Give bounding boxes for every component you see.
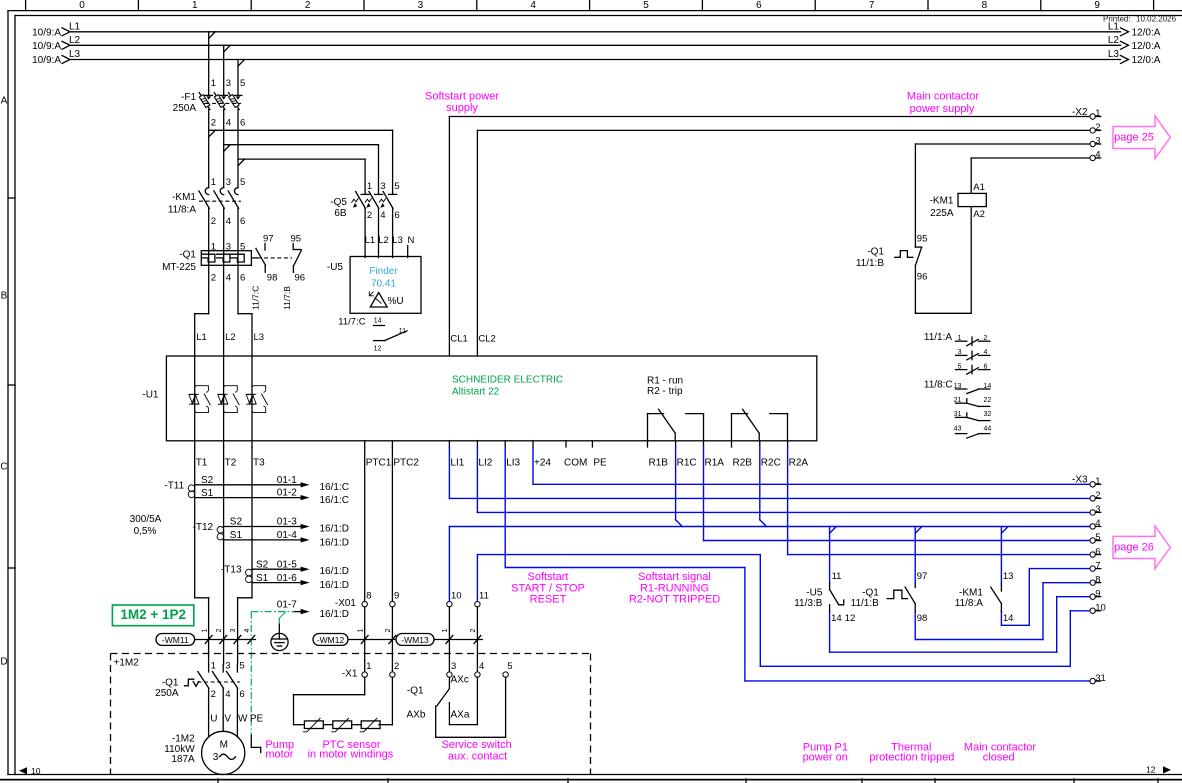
svg-text:8: 8 bbox=[366, 591, 371, 602]
svg-text:PTC2: PTC2 bbox=[393, 457, 419, 468]
relay contact R1 (changeover) inside -U1 bbox=[648, 409, 704, 441]
wire -X2:3 to -Q1 aux 95 bbox=[915, 143, 1090, 145]
svg-text:3: 3 bbox=[1095, 136, 1100, 147]
svg-text:power supply: power supply bbox=[910, 103, 975, 115]
svg-text:2: 2 bbox=[470, 629, 477, 633]
footer title-block top edge bbox=[0, 779, 1182, 783]
wire PTC1 to -X01:8 bbox=[364, 447, 366, 602]
wire LI3 to -X3:31 bbox=[505, 447, 1090, 681]
svg-text:8: 8 bbox=[982, 0, 988, 11]
svg-text:R2-NOT TRIPPED: R2-NOT TRIPPED bbox=[629, 594, 720, 606]
svg-text:Softstart: Softstart bbox=[528, 571, 569, 583]
svg-text:16/1:D: 16/1:D bbox=[320, 524, 349, 535]
miniature breaker -Q5 6B bbox=[330, 181, 399, 258]
svg-text:12/0:A: 12/0:A bbox=[1132, 55, 1161, 66]
svg-text:Finder: Finder bbox=[369, 266, 398, 277]
svg-text:-X01: -X01 bbox=[335, 598, 357, 609]
breaker contact -Q1 97-98 (11/1:B) bbox=[851, 571, 928, 624]
svg-text:V: V bbox=[224, 714, 231, 725]
svg-text:Main contactor: Main contactor bbox=[907, 90, 979, 102]
svg-text:2: 2 bbox=[1095, 122, 1100, 133]
svg-text:Softstart signal: Softstart signal bbox=[638, 571, 711, 583]
svg-text:16/1:C: 16/1:C bbox=[320, 495, 349, 506]
svg-text:8: 8 bbox=[1095, 574, 1100, 585]
wire LI1 to -X3:2 bbox=[449, 447, 1090, 498]
svg-text:aux. contact: aux. contact bbox=[448, 751, 507, 763]
svg-text:2: 2 bbox=[367, 210, 372, 221]
svg-text:-KM1: -KM1 bbox=[959, 588, 983, 599]
svg-text:14: 14 bbox=[374, 318, 382, 325]
circuit breaker -Q1 MT-225 with thermal elements bbox=[162, 241, 251, 283]
svg-text:-KM1: -KM1 bbox=[172, 192, 196, 203]
svg-text:-X1: -X1 bbox=[342, 669, 358, 680]
svg-text:11: 11 bbox=[832, 571, 842, 582]
svg-text:95: 95 bbox=[291, 234, 302, 245]
svg-text:10/9:A: 10/9:A bbox=[32, 55, 61, 66]
svg-text:01-1: 01-1 bbox=[277, 475, 297, 486]
svg-text:1: 1 bbox=[201, 629, 208, 633]
svg-text:1: 1 bbox=[211, 177, 216, 188]
svg-text:-Q5: -Q5 bbox=[330, 197, 347, 208]
svg-text:SCHNEIDER ELECTRIC: SCHNEIDER ELECTRIC bbox=[452, 375, 563, 386]
svg-text:1: 1 bbox=[1095, 476, 1100, 487]
svg-text:3: 3 bbox=[226, 78, 231, 89]
wire 01-7 PE reference to 16/1:D bbox=[277, 598, 357, 620]
contactor -KM1 main contacts 11/8:A bbox=[168, 177, 245, 251]
svg-text:4: 4 bbox=[244, 629, 251, 633]
fuse-switch -F1 250A bbox=[173, 78, 246, 129]
svg-text:LI3: LI3 bbox=[506, 457, 520, 468]
thyristor/bypass unit pole 2 inside -U1 bbox=[218, 356, 240, 441]
svg-text:L3: L3 bbox=[392, 235, 403, 246]
wire -X01:10 to -X1:3 bbox=[448, 607, 450, 672]
svg-text:11/1:B: 11/1:B bbox=[851, 598, 879, 609]
svg-text:4: 4 bbox=[479, 661, 484, 672]
svg-text:COM: COM bbox=[564, 457, 587, 468]
svg-text:A1: A1 bbox=[973, 182, 985, 193]
svg-text:01-7: 01-7 bbox=[277, 599, 297, 610]
svg-text:9: 9 bbox=[394, 591, 399, 602]
svg-text:32: 32 bbox=[984, 411, 992, 418]
svg-text:16/1:D: 16/1:D bbox=[320, 566, 349, 577]
svg-text:1: 1 bbox=[192, 0, 198, 11]
svg-text:14: 14 bbox=[831, 613, 842, 624]
svg-text:12/0:A: 12/0:A bbox=[1132, 27, 1161, 38]
relay -U5 output contact cross-reference 11/7:C bbox=[338, 316, 407, 352]
svg-text:2: 2 bbox=[394, 661, 399, 672]
svg-text:3: 3 bbox=[230, 629, 237, 633]
terminal strip -X01 bbox=[362, 591, 489, 607]
svg-text:-T11: -T11 bbox=[164, 480, 184, 491]
wire CL1 softstart supply from -X2:1 bbox=[449, 117, 1090, 357]
svg-text:10: 10 bbox=[1095, 602, 1106, 613]
svg-text:RESET: RESET bbox=[530, 594, 567, 606]
wire tap node L3 to -F1 bbox=[238, 60, 245, 96]
svg-text:L1: L1 bbox=[196, 332, 207, 343]
wire -X01:8 to -X1:1 bbox=[364, 607, 366, 672]
svg-text:5: 5 bbox=[507, 661, 512, 672]
svg-text:4: 4 bbox=[530, 0, 536, 11]
svg-text:97: 97 bbox=[917, 571, 928, 582]
designation box 1M2 + 1P2 bbox=[112, 605, 193, 626]
svg-text:2: 2 bbox=[211, 118, 216, 129]
svg-text:-U5: -U5 bbox=[327, 262, 344, 273]
svg-text:B: B bbox=[1, 291, 8, 302]
wire -F1:4 down to -KM1 with branch to -Q5 bbox=[224, 110, 379, 195]
svg-text:3: 3 bbox=[1095, 504, 1100, 515]
svg-text:6: 6 bbox=[240, 118, 245, 129]
svg-text:C: C bbox=[0, 462, 7, 473]
svg-text:11/8:A: 11/8:A bbox=[168, 205, 196, 216]
svg-text:2: 2 bbox=[211, 689, 216, 700]
svg-text:R2 - trip: R2 - trip bbox=[647, 386, 683, 397]
thyristor/bypass unit pole 3 inside -U1 bbox=[246, 356, 268, 441]
svg-text:11/3:B: 11/3:B bbox=[794, 598, 822, 609]
svg-text:11/1:B: 11/1:B bbox=[856, 258, 884, 269]
node labels U V W PE at motor bbox=[210, 714, 263, 725]
svg-text:2: 2 bbox=[1095, 490, 1100, 501]
svg-text:250A: 250A bbox=[173, 103, 197, 114]
svg-text:5: 5 bbox=[240, 78, 245, 89]
page 25 arrow link bbox=[1113, 116, 1170, 159]
wire T1 from -U1 to motor branch bbox=[195, 447, 209, 665]
wire tap node L1 to -F1 bbox=[209, 32, 216, 96]
svg-text:3: 3 bbox=[380, 181, 385, 192]
svg-text:01-4: 01-4 bbox=[277, 530, 297, 541]
svg-text:-X2: -X2 bbox=[1072, 107, 1088, 118]
wire -X01:11 to -X1:4 bbox=[476, 607, 478, 672]
node labels L1 L2 L3 N at -U5 inputs bbox=[365, 235, 415, 258]
svg-text:01-2: 01-2 bbox=[277, 488, 297, 499]
svg-text:5: 5 bbox=[1095, 532, 1100, 543]
wire phase L1 top power line bbox=[32, 21, 1161, 38]
label service switch aux contact bbox=[441, 739, 511, 762]
svg-text:6: 6 bbox=[756, 0, 762, 11]
svg-text:7: 7 bbox=[869, 0, 875, 11]
svg-text:2: 2 bbox=[385, 629, 392, 633]
svg-text:0,5%: 0,5% bbox=[134, 526, 157, 537]
svg-text:4: 4 bbox=[226, 118, 231, 129]
svg-text:power on: power on bbox=[803, 752, 848, 764]
PTC sensor resistors in motor windings bbox=[294, 718, 393, 732]
wire +24 to -X3:1 bbox=[533, 447, 1090, 484]
svg-text:31: 31 bbox=[1095, 673, 1106, 684]
svg-text:12/0:A: 12/0:A bbox=[1132, 41, 1161, 52]
svg-text:1: 1 bbox=[211, 78, 216, 89]
svg-text:1: 1 bbox=[367, 181, 372, 192]
svg-text:motor: motor bbox=[265, 749, 293, 761]
svg-text:16/1:D: 16/1:D bbox=[320, 537, 349, 548]
terminal strip -X2 bbox=[1072, 107, 1101, 161]
svg-text:70.41: 70.41 bbox=[371, 279, 396, 290]
svg-text:supply: supply bbox=[446, 102, 478, 114]
green PE dash-dot wire bbox=[251, 612, 294, 736]
wire -F1:6 down to -KM1 with branch to -Q5 bbox=[238, 110, 365, 195]
svg-text:13: 13 bbox=[1003, 571, 1014, 582]
svg-text:1: 1 bbox=[211, 660, 216, 671]
svg-text:-KM1: -KM1 bbox=[930, 196, 954, 207]
softstarter -U1 Schneider Altistart 22 enclosure bbox=[142, 356, 816, 441]
breaker -Q1 auxiliary contact 97-98 (11/7:C) bbox=[251, 234, 293, 311]
svg-text:-Q1: -Q1 bbox=[179, 250, 196, 261]
svg-text:3: 3 bbox=[213, 752, 219, 763]
svg-text:N: N bbox=[408, 235, 415, 246]
label pump P1 power on bbox=[803, 742, 848, 764]
svg-text:4: 4 bbox=[380, 210, 385, 221]
wire status common rail to -X3:4 and -X01:10 bbox=[449, 447, 1090, 602]
voltage monitoring relay -U5 Finder 70.41 bbox=[327, 257, 421, 314]
label main contactor power supply bbox=[907, 90, 979, 114]
relay contact -U5 11-14-12 (11/3:B) bbox=[794, 571, 855, 624]
cross-reference table 11/8:C auxiliary contacts bbox=[924, 380, 991, 439]
svg-text:T1: T1 bbox=[196, 457, 208, 468]
svg-text:R1A: R1A bbox=[705, 457, 725, 468]
svg-text:page 26: page 26 bbox=[1114, 542, 1154, 554]
svg-text:Service switch: Service switch bbox=[441, 739, 511, 751]
terminal strip -X1 bbox=[342, 661, 513, 680]
svg-text:11/8:A: 11/8:A bbox=[955, 598, 983, 609]
svg-text:L3: L3 bbox=[1108, 49, 1120, 60]
svg-text:11/7:C: 11/7:C bbox=[338, 316, 365, 327]
svg-text:-T12: -T12 bbox=[193, 522, 214, 533]
svg-text:4: 4 bbox=[226, 272, 231, 283]
label softstart power supply bbox=[425, 91, 499, 114]
wire phase L3 top power line bbox=[32, 49, 1161, 66]
wire -U5 contact branch to -X3:9 bbox=[830, 527, 1090, 653]
svg-text:Altistart 22: Altistart 22 bbox=[452, 387, 500, 398]
cable marker -WM11 bbox=[156, 629, 256, 646]
bottom page navigation markers bbox=[19, 765, 1171, 777]
terminal strip -X3 bbox=[1072, 475, 1106, 684]
svg-text:AXc: AXc bbox=[451, 675, 469, 686]
svg-text:L2: L2 bbox=[1108, 35, 1120, 46]
svg-text:10: 10 bbox=[31, 766, 41, 776]
svg-text:-X3: -X3 bbox=[1072, 475, 1088, 486]
svg-text:10/9:A: 10/9:A bbox=[32, 41, 61, 52]
wire CL2 softstart supply from -X2:2 bbox=[477, 130, 1090, 356]
svg-text:in motor windings: in motor windings bbox=[308, 749, 394, 761]
svg-text:AXa: AXa bbox=[451, 710, 470, 721]
svg-text:12: 12 bbox=[845, 613, 856, 624]
label CT rating 300/5A 0,5% bbox=[130, 514, 162, 537]
motor breaker -Q1 250A bbox=[155, 660, 245, 717]
svg-text:96: 96 bbox=[295, 273, 306, 284]
svg-text:-U5: -U5 bbox=[806, 588, 823, 599]
svg-text:11: 11 bbox=[399, 328, 406, 335]
svg-text:11/1:A: 11/1:A bbox=[924, 332, 952, 343]
contactor contact -KM1 13-14 (11/8:A) bbox=[955, 571, 1014, 624]
svg-text:3: 3 bbox=[418, 0, 424, 11]
svg-text:44: 44 bbox=[984, 425, 992, 432]
wire L3 from -Q1:6 to -U1 bbox=[238, 265, 264, 356]
svg-text:7: 7 bbox=[1095, 560, 1100, 571]
current transformer -T11 bbox=[164, 475, 349, 506]
contactor coil -KM1 225A bbox=[930, 158, 987, 313]
svg-text:-WM12: -WM12 bbox=[317, 635, 345, 645]
svg-text:5: 5 bbox=[643, 0, 649, 11]
svg-text:-WM13: -WM13 bbox=[401, 635, 429, 645]
svg-text:10/9:A: 10/9:A bbox=[32, 27, 61, 38]
svg-text:Softstart power: Softstart power bbox=[425, 91, 499, 103]
svg-text:closed: closed bbox=[983, 752, 1015, 764]
svg-text:225A: 225A bbox=[930, 208, 954, 219]
svg-text:3: 3 bbox=[451, 661, 456, 672]
label pump motor bbox=[265, 739, 294, 761]
wire T2 from -U1 to motor branch bbox=[223, 447, 225, 665]
svg-text:0: 0 bbox=[79, 0, 85, 11]
svg-text:12: 12 bbox=[1146, 765, 1156, 775]
svg-text:43: 43 bbox=[954, 425, 962, 432]
svg-text:M: M bbox=[220, 740, 228, 751]
svg-text:LI2: LI2 bbox=[478, 457, 492, 468]
svg-text:11/7:C: 11/7:C bbox=[251, 286, 261, 310]
svg-text:16/1:C: 16/1:C bbox=[320, 482, 349, 493]
svg-text:1M2 + 1P2: 1M2 + 1P2 bbox=[120, 607, 186, 622]
svg-text:2: 2 bbox=[305, 0, 311, 11]
svg-text:5: 5 bbox=[240, 177, 245, 188]
svg-text:12: 12 bbox=[374, 345, 382, 352]
svg-text:-T13: -T13 bbox=[221, 565, 242, 576]
svg-text:01-5: 01-5 bbox=[277, 559, 297, 570]
svg-text:CL1: CL1 bbox=[450, 334, 467, 345]
wire -X1:1 to PTC chain bbox=[294, 677, 365, 724]
svg-text:01-3: 01-3 bbox=[277, 517, 297, 528]
svg-text:2: 2 bbox=[216, 629, 223, 633]
svg-text:-U1: -U1 bbox=[142, 390, 159, 401]
svg-text:5: 5 bbox=[394, 181, 399, 192]
svg-text:-Q1: -Q1 bbox=[862, 588, 879, 599]
svg-text:-Q1: -Q1 bbox=[867, 247, 884, 258]
svg-text:L1: L1 bbox=[365, 235, 376, 246]
wire -Q1 aux 97-98 branch to -X3:8 bbox=[915, 527, 1090, 640]
svg-text:1: 1 bbox=[1095, 108, 1100, 119]
svg-text:4: 4 bbox=[226, 216, 231, 227]
wire -X01:11 branch to -X3:10 bbox=[477, 555, 1090, 667]
cable marker -WM13 bbox=[396, 629, 482, 646]
svg-text:95: 95 bbox=[917, 233, 928, 244]
svg-text:L3: L3 bbox=[69, 49, 81, 60]
wire PTC2 to -X01:9 bbox=[391, 447, 393, 602]
svg-text:START / STOP: START / STOP bbox=[511, 582, 585, 594]
service switch aux contact AXc-AXa (-Q1) bbox=[407, 675, 477, 725]
svg-text:L1: L1 bbox=[1108, 21, 1120, 32]
svg-text:16/1:D: 16/1:D bbox=[320, 580, 349, 591]
svg-text:-Q1: -Q1 bbox=[162, 678, 179, 689]
svg-text:+1M2: +1M2 bbox=[114, 658, 140, 669]
svg-text:10.02.2026: 10.02.2026 bbox=[1136, 15, 1177, 24]
wire -X01:9 to -X1:2 bbox=[391, 607, 393, 672]
svg-text:4: 4 bbox=[1095, 518, 1100, 529]
svg-text:11/8:C: 11/8:C bbox=[924, 380, 953, 391]
ground symbol (protective earth) bbox=[271, 624, 288, 650]
svg-text:01-6: 01-6 bbox=[277, 573, 297, 584]
svg-text:98: 98 bbox=[917, 613, 928, 624]
svg-text:R2B: R2B bbox=[733, 457, 753, 468]
svg-text:L2: L2 bbox=[69, 35, 81, 46]
label main contactor closed bbox=[964, 742, 1036, 764]
relay contact R2 (changeover) inside -U1 bbox=[732, 409, 788, 441]
svg-text:96: 96 bbox=[917, 272, 928, 283]
svg-text:5: 5 bbox=[239, 660, 244, 671]
motor -1M2 110kW 187A bbox=[164, 731, 244, 774]
svg-text:PE: PE bbox=[250, 714, 264, 725]
mounting location box +1M2 (dashed) bbox=[111, 654, 591, 775]
label softstart START/STOP RESET bbox=[511, 571, 585, 606]
wire tap node L2 to -F1 bbox=[224, 45, 231, 95]
breaker -Q1 auxiliary contact 95-96 (11/7:B) bbox=[282, 234, 305, 311]
svg-text:300/5A: 300/5A bbox=[130, 514, 162, 525]
printed date bbox=[1103, 15, 1177, 24]
wire U V W to motor bbox=[209, 718, 238, 738]
svg-text:2: 2 bbox=[211, 216, 216, 227]
svg-text:6: 6 bbox=[394, 210, 399, 221]
svg-text:10: 10 bbox=[451, 591, 462, 602]
svg-text:A: A bbox=[1, 96, 8, 107]
svg-text:%U: %U bbox=[387, 296, 403, 307]
wire R1A to -X3:5 bbox=[704, 447, 1090, 541]
svg-text:6: 6 bbox=[240, 272, 245, 283]
wire phase L2 top power line bbox=[32, 35, 1161, 52]
svg-text:L2: L2 bbox=[225, 332, 236, 343]
svg-text:9: 9 bbox=[1095, 588, 1100, 599]
wire LI2 to -X3:3 bbox=[477, 447, 1090, 512]
cable marker -WM12 bbox=[313, 629, 396, 646]
page 26 arrow link bbox=[1113, 526, 1170, 569]
svg-text:3: 3 bbox=[226, 177, 231, 188]
svg-text:11/7:B: 11/7:B bbox=[282, 286, 292, 310]
wire T3 from -U1 to motor branch bbox=[238, 447, 252, 665]
svg-text:CL2: CL2 bbox=[478, 334, 495, 345]
svg-text:A2: A2 bbox=[973, 209, 985, 220]
svg-text:22: 22 bbox=[984, 397, 992, 404]
svg-text:L1: L1 bbox=[69, 21, 81, 32]
svg-text:LI1: LI1 bbox=[450, 457, 464, 468]
svg-text:T2: T2 bbox=[225, 457, 237, 468]
current transformer -T12 bbox=[193, 517, 349, 549]
svg-text:14: 14 bbox=[1003, 613, 1014, 624]
-U1 terminal pin stubs and labels bbox=[195, 441, 809, 469]
wire L2 from -Q1:4 to -U1 bbox=[224, 265, 236, 356]
svg-text:6: 6 bbox=[239, 689, 244, 700]
PE connection to motor bbox=[251, 736, 260, 753]
svg-text:page 25: page 25 bbox=[1114, 132, 1154, 144]
svg-text:R2A: R2A bbox=[789, 457, 809, 468]
wire -KM1 aux 13-14 branch to -X3:7 bbox=[1001, 527, 1090, 626]
svg-text:L3: L3 bbox=[254, 332, 265, 343]
wire -F1:2 down to -KM1 with branch to -Q5 bbox=[209, 110, 393, 195]
current transformer -T13 bbox=[221, 559, 349, 591]
svg-text:1: 1 bbox=[442, 629, 449, 633]
thyristor/bypass unit pole 1 inside -U1 bbox=[189, 356, 211, 441]
svg-text:U: U bbox=[210, 714, 217, 725]
breaker -Q1 aux contact 95-96 (11/1:B) in coil circuit bbox=[856, 144, 971, 313]
svg-text:R1C: R1C bbox=[677, 457, 697, 468]
svg-text:protection tripped: protection tripped bbox=[869, 752, 954, 764]
svg-text:L2: L2 bbox=[378, 235, 389, 246]
wire L1 from -Q1:2 to -U1 bbox=[195, 265, 209, 356]
svg-text:1: 1 bbox=[366, 661, 371, 672]
svg-text:11: 11 bbox=[479, 591, 489, 602]
svg-text:T3: T3 bbox=[253, 457, 265, 468]
svg-text:R1B: R1B bbox=[649, 457, 669, 468]
svg-text:R1-RUNNING: R1-RUNNING bbox=[640, 582, 709, 594]
svg-text:4: 4 bbox=[225, 689, 230, 700]
svg-text:98: 98 bbox=[267, 273, 278, 284]
svg-text:+24: +24 bbox=[534, 457, 551, 468]
label PTC sensor in motor windings bbox=[308, 739, 394, 761]
wire PTC chain to -X1:2 bbox=[391, 677, 393, 724]
svg-text:AXb: AXb bbox=[407, 710, 426, 721]
